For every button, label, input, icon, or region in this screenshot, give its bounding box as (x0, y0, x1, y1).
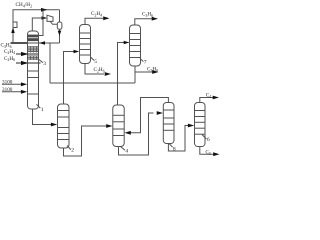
valve on CH4/H2 riser (13, 22, 17, 28)
thick segment of C3H6 line (11, 42, 29, 44)
arrow into column 6 (188, 124, 194, 128)
arrow C2H6 out (105, 72, 111, 76)
wire column 4 overhead to column 7 feed (118, 43, 129, 106)
wire column 1 overhead to compressor (32, 18, 46, 31)
wire compressor discharge (50, 21, 57, 24)
svg-text:8: 8 (173, 147, 176, 153)
wire column 8 overhead recycle to column 4 (130, 98, 168, 133)
wire C2H4 refrigerant into column 1 (16, 53, 38, 55)
wire column 2 overhead to column 5 feed (64, 52, 76, 105)
wire feed 3100 lower (2, 91, 22, 93)
wire column 6 bottoms C5 (200, 147, 215, 155)
tick label 6 (202, 135, 206, 140)
wire feed 3100 upper (2, 83, 22, 85)
svg-text:7: 7 (144, 59, 147, 65)
wire column 8 bottoms to column 6 (168, 126, 190, 152)
svg-text:3100: 3100 (2, 87, 13, 93)
column 1 packing band E3 (28, 56, 38, 61)
column 6 debutanizer shell (195, 103, 206, 147)
wire drum inlet from top (59, 10, 61, 22)
svg-text:6: 6 (207, 137, 210, 143)
svg-text:3100: 3100 (2, 79, 13, 85)
svg-text:1: 1 (41, 107, 44, 113)
svg-text:CH4/H2: CH4/H2 (16, 2, 33, 8)
wire header y83 (50, 82, 135, 84)
arrow C3H6 out (152, 17, 158, 21)
tick label 8 (169, 144, 173, 148)
arrow into column 7 (124, 41, 130, 45)
wire C2H6 refrigerant into column 1 (16, 62, 41, 64)
arrow into column 2 (51, 123, 57, 127)
arrow down on drum bottoms (58, 31, 62, 36)
column 4 depropanizer shell (113, 105, 124, 147)
svg-text:2: 2 (71, 147, 74, 153)
tick label 4 (121, 147, 126, 151)
arrow into column 4 right wall (125, 131, 131, 135)
wire column 4 bottoms to column 8 (119, 113, 154, 155)
wire C3H8 product tee (135, 71, 153, 73)
wire CH4/H2 overhead line (13, 10, 60, 42)
arrow C2H4 out (103, 16, 109, 20)
tick label 2 (67, 146, 71, 150)
svg-text:3: 3 (43, 61, 46, 67)
tick label 1 (37, 104, 41, 108)
column 1 packing band E1 (28, 35, 38, 42)
drum V1 (57, 22, 62, 29)
column 1 demethanizer tower shell (28, 31, 39, 109)
arrow C4 out (213, 96, 219, 100)
tick label 3 (39, 59, 44, 62)
arrow into column 4 (106, 124, 112, 128)
arrow feed lower into column 1 (21, 90, 27, 94)
wire column 5 bottoms C2H6 (85, 64, 104, 75)
column 5 ethylene splitter shell (80, 25, 91, 64)
arrow into compressor (42, 16, 48, 20)
arrow C3H8 out (152, 70, 158, 74)
arrow feed upper into column 1 (21, 82, 27, 86)
tick label 5 (91, 57, 95, 60)
svg-text:4: 4 (125, 148, 128, 154)
wire column 6 overhead C4 (200, 98, 214, 103)
wire reflux line y43 across column 1 (11, 42, 60, 44)
wire column 7 overhead C3H6 (135, 19, 152, 25)
column 8 tower shell (163, 103, 174, 144)
arrow into column 8 (157, 111, 163, 115)
wire column 2 bottoms to column 4 (64, 126, 108, 156)
wire column 5 overhead C2H4 (85, 18, 103, 24)
column 7 propylene splitter shell (130, 25, 141, 66)
wire column 1 bottoms to column 2 (33, 109, 52, 125)
arrow CH4/H2 out (41, 8, 47, 12)
wire drum bottoms down (59, 29, 61, 43)
arrow into column 1 right wall (39, 41, 45, 45)
arrow up on CH4/H2 riser (11, 28, 15, 34)
wire column 7 bottoms to header (134, 66, 136, 83)
wire branch down to header (49, 43, 51, 83)
column 1 packing band E2 (28, 46, 38, 52)
arrow into column 5 (74, 50, 80, 54)
column 2 deethanizer shell (58, 104, 70, 148)
arrow C5 out (213, 152, 219, 156)
tick label 7 (140, 58, 143, 61)
wire column 1 side draw riser (39, 10, 44, 36)
compressor K1 (47, 15, 53, 21)
svg-text:5: 5 (94, 59, 97, 65)
